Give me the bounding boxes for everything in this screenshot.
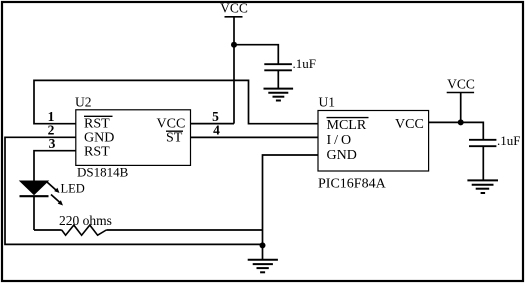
node VCC (top) xyxy=(220,1,248,17)
pin label RST (overline, U2 pin1) xyxy=(84,116,113,131)
svg-text:3: 3 xyxy=(49,136,56,151)
wire junction to ground symbol xyxy=(262,245,264,259)
svg-text:DS1814B: DS1814B xyxy=(77,165,129,180)
svg-text:GND: GND xyxy=(84,130,114,145)
svg-text:VCC: VCC xyxy=(220,1,248,16)
svg-text:LED: LED xyxy=(61,182,85,196)
capacitor C1 .1uF xyxy=(264,64,292,88)
ground (bottom, main) xyxy=(248,260,278,273)
svg-text:.1uF: .1uF xyxy=(497,133,520,148)
wire VCC vertical to U2 pin5 xyxy=(233,17,235,124)
svg-text:VCC: VCC xyxy=(395,117,424,132)
wire U2 pin5 VCC xyxy=(191,123,235,125)
svg-text:GND: GND xyxy=(327,148,357,163)
ground (under C2) xyxy=(467,180,498,193)
svg-text:4: 4 xyxy=(213,123,220,138)
wire U2 pin3 RST to LED xyxy=(34,151,76,181)
wire U1 VCC to C2 xyxy=(429,122,484,139)
svg-text:I/O: I/O xyxy=(327,133,355,148)
junction dot ground rail xyxy=(260,242,266,248)
wire U2 pin4 ST to U1 I/O xyxy=(191,136,319,138)
svg-text:PIC16F84A: PIC16F84A xyxy=(318,177,387,192)
ground (under C1) xyxy=(264,89,294,101)
junction dot VCC xyxy=(231,42,237,48)
svg-text:VCC: VCC xyxy=(447,77,475,92)
svg-text:.1uF: .1uF xyxy=(293,56,316,71)
LED emission arrow 1 xyxy=(47,182,60,193)
node VCC (right) xyxy=(447,77,475,93)
svg-text:VCC: VCC xyxy=(157,117,186,132)
IC U1 box xyxy=(318,111,429,172)
resistor R1 220 ohms xyxy=(34,225,263,235)
wire junction to C1 xyxy=(234,45,278,64)
svg-text:RST: RST xyxy=(84,144,110,159)
LED emission arrow 2 xyxy=(51,195,63,206)
junction dot VCC2 xyxy=(458,119,464,125)
capacitor C2 .1uF xyxy=(469,140,496,181)
svg-text:ST: ST xyxy=(166,130,183,145)
wire VCC2 vertical xyxy=(460,93,462,123)
pin label MCLR (overline, U1) xyxy=(327,118,369,133)
svg-text:U2: U2 xyxy=(75,95,92,110)
wire U1 GND down to ground junction xyxy=(263,155,319,245)
svg-text:RST: RST xyxy=(84,117,110,132)
IC U2 box xyxy=(76,110,191,166)
pin label ST (overline, U2 pin4) xyxy=(166,130,183,145)
wire U2 pin2 GND to ground rail xyxy=(5,137,263,244)
svg-text:MCLR: MCLR xyxy=(327,118,367,133)
svg-text:U1: U1 xyxy=(319,95,336,110)
LED D1 xyxy=(20,181,49,230)
svg-text:220 ohms: 220 ohms xyxy=(59,213,112,228)
wire U2 pin1 RST to U1 MCLR (loop over top) xyxy=(34,80,318,123)
